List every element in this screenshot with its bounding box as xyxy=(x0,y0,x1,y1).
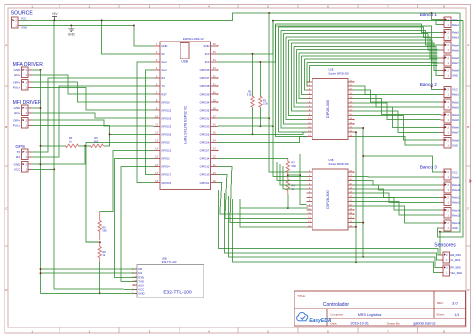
label MFA DRIVER xyxy=(13,62,44,68)
junction p12 rail xyxy=(362,256,364,258)
svg-text:Rele2: Rele2 xyxy=(452,31,459,35)
wire 3V3 p34 xyxy=(218,26,441,89)
junction banco1 vcc xyxy=(431,12,433,14)
wire socket1 p13 drop xyxy=(354,132,357,262)
wire R7 tap xyxy=(288,174,300,176)
junction M1 xyxy=(40,272,42,274)
connector bank Banco 2 xyxy=(420,82,460,148)
wire p27 xyxy=(218,117,270,119)
svg-text:GPIO25: GPIO25 xyxy=(200,133,210,137)
svg-text:GND: GND xyxy=(452,143,458,147)
svg-text:PUL+: PUL+ xyxy=(13,86,21,90)
svg-text:GND: GND xyxy=(14,68,22,72)
resistor R4 xyxy=(65,136,78,147)
wire row208 xyxy=(240,207,308,209)
wire MFI GND xyxy=(32,107,41,109)
wire GPS GND xyxy=(32,163,41,165)
wire R9 bottom xyxy=(287,195,289,209)
wire MFI DIR to pin11 xyxy=(32,120,153,126)
svg-text:2019-10-31: 2019-10-31 xyxy=(351,322,369,326)
svg-text:GPIO13: GPIO13 xyxy=(200,173,210,177)
svg-text:GPIO39: GPIO39 xyxy=(200,92,210,96)
svg-text:GND: GND xyxy=(68,32,76,36)
svg-text:VCC: VCC xyxy=(452,88,458,92)
junction R6 bottom xyxy=(99,241,101,243)
wire R4R5 tap down xyxy=(41,146,86,164)
junction p13 drop xyxy=(355,131,357,133)
wire banco1 vcc xyxy=(432,13,441,20)
svg-text:gabriel.barros: gabriel.barros xyxy=(413,322,435,326)
svg-text:SOURCE: SOURCE xyxy=(11,10,34,16)
wire socket2 p15 stub xyxy=(354,226,357,228)
wire VCC margin drop xyxy=(440,13,460,232)
junction A drop xyxy=(268,12,270,14)
connector MFA DIR/PUL xyxy=(13,80,32,90)
svg-text:Rele4: Rele4 xyxy=(452,113,459,117)
wire p19 to socket2 xyxy=(218,183,307,215)
wire p25 to socket1 p13 xyxy=(218,132,307,134)
svg-text:USB: USB xyxy=(181,60,188,64)
title block xyxy=(294,291,465,326)
wire banco3 vcc xyxy=(363,156,440,172)
wire MFA PUL to pin9 xyxy=(32,87,153,110)
wire p22 to R7 xyxy=(218,157,288,159)
svg-text:Sheet:: Sheet: xyxy=(436,313,445,317)
svg-text:GPIO18: GPIO18 xyxy=(161,133,171,137)
svg-text:TX: TX xyxy=(16,150,20,154)
junction banco2 vcc xyxy=(431,85,433,87)
unconnected pin markers xyxy=(133,45,354,286)
svg-text:U5B: U5B xyxy=(162,257,167,260)
svg-text:Socket DIP28-300: Socket DIP28-300 xyxy=(329,163,350,166)
svg-text:GPIO22: GPIO22 xyxy=(161,108,171,112)
resistor R5 xyxy=(90,136,104,147)
svg-text:DIR+: DIR+ xyxy=(13,80,20,84)
svg-text:Rele1: Rele1 xyxy=(452,93,459,97)
junction 5V drop xyxy=(101,19,103,21)
wire p20 to socket2 xyxy=(218,175,307,219)
svg-text:GPS: GPS xyxy=(15,144,25,149)
socket U3B DIP28-300 xyxy=(307,159,354,230)
connector bank Banco 1 xyxy=(420,12,460,78)
wire +5V vertical xyxy=(54,20,137,289)
resistor R2 xyxy=(259,62,269,108)
svg-text:Banco 3: Banco 3 xyxy=(420,165,438,170)
svg-text:Rele9: Rele9 xyxy=(452,175,459,179)
junction R4R5 xyxy=(84,145,86,147)
svg-text:Vext: Vext xyxy=(161,68,166,72)
wire R8 bottom xyxy=(99,262,101,293)
wire nest socket1 to banco1 xyxy=(276,24,441,136)
wire tap vertical xyxy=(300,154,307,204)
wire pin15 to E32 RXD xyxy=(115,158,154,277)
wire margin to sensores xyxy=(439,232,441,255)
usb connector xyxy=(180,43,189,64)
svg-text:A: A xyxy=(5,43,7,47)
svg-text:Rele16: Rele16 xyxy=(452,221,461,225)
svg-text:3V3: 3V3 xyxy=(205,60,210,64)
module U5 E32-TTL-100 xyxy=(132,264,203,297)
svg-text:VCC: VCC xyxy=(452,18,458,22)
svg-text:Rele3: Rele3 xyxy=(452,105,459,109)
wire rail3 xyxy=(228,196,440,268)
svg-text:GND: GND xyxy=(138,291,144,295)
svg-text:GND: GND xyxy=(21,25,27,29)
svg-text:1/1: 1/1 xyxy=(455,313,460,317)
svg-text:Rele13: Rele13 xyxy=(452,201,461,205)
svg-text:E32-TTL-100: E32-TTL-100 xyxy=(162,261,177,264)
svg-text:E32-TTL-100: E32-TTL-100 xyxy=(163,290,192,296)
svg-text:GPIO38: GPIO38 xyxy=(200,84,210,88)
svg-text:Rele15: Rele15 xyxy=(452,213,461,217)
svg-text:GPIO34: GPIO34 xyxy=(200,100,210,104)
wire banco1 rele1 xyxy=(436,21,441,25)
svg-text:MRS Logística: MRS Logística xyxy=(358,313,381,317)
wire rail4 xyxy=(233,199,441,273)
wire GND pin1 feed xyxy=(134,25,153,45)
svg-text:RST: RST xyxy=(161,92,167,96)
wire GND rail xyxy=(21,24,134,26)
svg-text:ESP32-LORA-V2: ESP32-LORA-V2 xyxy=(183,37,204,41)
svg-text:560: 560 xyxy=(94,139,99,143)
connector MFI GND/EN xyxy=(14,105,32,115)
svg-text:GPIO33: GPIO33 xyxy=(200,124,210,128)
resistor R9 xyxy=(286,175,295,194)
svg-text:EasyEDA: EasyEDA xyxy=(309,318,332,324)
wire VCC rail xyxy=(21,13,460,20)
svg-text:Rele4: Rele4 xyxy=(452,43,459,47)
wire E32 gnd xyxy=(41,292,138,294)
svg-text:560: 560 xyxy=(292,164,297,168)
junction R9 bottom xyxy=(287,207,289,209)
wire socket1 p12 drop xyxy=(354,128,364,257)
svg-text:Company:: Company: xyxy=(330,313,343,317)
svg-text:GPIO35: GPIO35 xyxy=(200,108,210,112)
svg-text:Rele3: Rele3 xyxy=(452,36,459,40)
wire socket2 p3 feed xyxy=(277,162,307,181)
wire aux corner xyxy=(86,241,100,243)
svg-text:GPIO15: GPIO15 xyxy=(161,149,171,153)
wire pin3 feed xyxy=(137,62,153,183)
ground symbol GND xyxy=(68,25,76,36)
junction GPS GND xyxy=(40,163,42,165)
svg-text:Rele6: Rele6 xyxy=(452,56,459,60)
wire M1 xyxy=(41,272,138,274)
svg-text:VEL_SEN: VEL_SEN xyxy=(450,271,462,275)
label LoRa vertical xyxy=(184,106,188,144)
wire p26 xyxy=(218,125,273,127)
wire pin16 to E32 TXD xyxy=(121,167,153,282)
svg-text:A: A xyxy=(467,43,469,47)
junction GPS VCC xyxy=(53,168,55,170)
svg-text:Banco 1: Banco 1 xyxy=(420,12,438,17)
svg-text:TX: TX xyxy=(161,84,165,88)
svg-text:Rele7: Rele7 xyxy=(452,131,459,135)
wire GPS TX to pin5 xyxy=(32,78,153,152)
junction p27 xyxy=(268,117,270,119)
svg-text:Vext: Vext xyxy=(161,60,166,64)
svg-text:Drawn By:: Drawn By: xyxy=(387,322,401,326)
svg-text:GPIO16: GPIO16 xyxy=(161,181,171,185)
svg-text:RP_SEN: RP_SEN xyxy=(450,266,461,270)
junction R5 pullup xyxy=(109,133,111,135)
svg-text:REV:: REV: xyxy=(437,301,444,305)
svg-text:Rele2: Rele2 xyxy=(452,100,459,104)
socket U2B DIP28-300 xyxy=(307,69,354,140)
wire 5V pin2 feed xyxy=(102,20,154,54)
svg-text:GPIO37: GPIO37 xyxy=(200,76,210,80)
junction B drop xyxy=(272,20,274,22)
wire R2 bottom xyxy=(259,107,261,126)
junction R8 gnd xyxy=(99,292,101,294)
svg-text:GPIO12: GPIO12 xyxy=(200,165,210,169)
junction banco3 vcc tap xyxy=(362,155,364,157)
svg-text:GPIO0: GPIO0 xyxy=(161,100,170,104)
wire socket2 p16 stub xyxy=(354,222,364,224)
svg-text:DIR+: DIR+ xyxy=(13,118,20,122)
wire GPS VCC xyxy=(32,168,54,170)
svg-text:Rele8: Rele8 xyxy=(452,69,459,73)
junction p12 drop xyxy=(362,127,364,129)
svg-text:Rele5: Rele5 xyxy=(452,48,459,52)
wire left GND vertical xyxy=(40,70,42,293)
svg-text:Banco 2: Banco 2 xyxy=(420,82,438,87)
label MFI DRIVER xyxy=(13,100,42,106)
svg-text:3.0: 3.0 xyxy=(452,301,458,306)
wire MFA DIR to pin8 xyxy=(32,82,153,102)
svg-text:GPIO19: GPIO19 xyxy=(161,116,171,120)
svg-text:VCC: VCC xyxy=(452,170,458,174)
junction p13 rail xyxy=(355,261,357,263)
svg-text:3.3k: 3.3k xyxy=(263,102,269,106)
wire socket1 p14 banco2 gnd xyxy=(354,136,441,145)
svg-text:DIP28-300: DIP28-300 xyxy=(326,100,330,118)
svg-text:VCC: VCC xyxy=(14,168,21,172)
svg-text:GPIO5: GPIO5 xyxy=(161,141,170,145)
svg-text:+5V: +5V xyxy=(52,12,59,16)
svg-text:U2B: U2B xyxy=(329,69,334,72)
wire R4 left xyxy=(41,145,66,147)
svg-text:Socket DIP28-300: Socket DIP28-300 xyxy=(329,73,350,76)
+5V power symbol xyxy=(52,12,59,20)
svg-text:560: 560 xyxy=(102,229,107,233)
wire socket2 p4 feed xyxy=(280,164,307,185)
junction s2p15 xyxy=(355,226,357,228)
wire p24 to socket1 p14 xyxy=(218,136,307,142)
svg-text:Rele14: Rele14 xyxy=(452,208,461,212)
logo EasyEDA xyxy=(297,313,332,325)
svg-text:3.3k: 3.3k xyxy=(247,93,253,97)
wire rail1 xyxy=(218,190,440,255)
connector P1 SOURCE xyxy=(12,16,28,29)
wire GPS RX to pin6 xyxy=(32,86,153,157)
svg-text:GPIO17: GPIO17 xyxy=(161,173,171,177)
connector P1 SOURCE title xyxy=(11,10,34,16)
svg-text:GPIO27: GPIO27 xyxy=(200,149,210,153)
connector bank Banco 3 xyxy=(420,165,461,231)
svg-text:TITLE:: TITLE: xyxy=(297,294,306,298)
svg-text:Rele8: Rele8 xyxy=(452,138,459,142)
resistor R6 xyxy=(98,212,107,241)
wire p21 to socket2 xyxy=(218,167,307,223)
svg-text:U3B: U3B xyxy=(329,159,334,162)
svg-text:GPIO21: GPIO21 xyxy=(200,181,210,185)
junction R2 top xyxy=(259,61,261,63)
wire pin4 feed xyxy=(146,70,154,175)
svg-text:GND: GND xyxy=(161,44,167,48)
wire banco1 r1 xyxy=(436,20,463,22)
svg-text:B: B xyxy=(467,125,469,129)
svg-text:B: B xyxy=(5,125,7,129)
label GPS xyxy=(15,144,25,149)
svg-text:Controlador: Controlador xyxy=(323,302,349,308)
svg-text:GPIO36: GPIO36 xyxy=(200,68,210,72)
wire MFI PUL to pin12 xyxy=(32,125,153,134)
svg-text:3V3: 3V3 xyxy=(205,52,210,56)
wire R1 bottom xyxy=(252,107,254,134)
svg-text:EN+: EN+ xyxy=(14,73,20,77)
svg-text:GND: GND xyxy=(203,44,209,48)
svg-text:5V: 5V xyxy=(161,52,164,56)
svg-text:Rele12: Rele12 xyxy=(452,196,461,200)
junction GND drop xyxy=(133,24,135,26)
wire socket2 to banco3 xyxy=(354,176,441,223)
wire socket2 p14 feed xyxy=(240,199,307,227)
wire R5 right up xyxy=(104,134,110,146)
svg-text:Rele5: Rele5 xyxy=(452,118,459,122)
junction R7 bottom xyxy=(287,174,289,176)
svg-text:Sensores: Sensores xyxy=(434,242,456,248)
connector Sensores xyxy=(434,242,462,275)
junction R4 left xyxy=(40,145,42,147)
junction sensores feed xyxy=(439,231,441,233)
wire B drop to socket2 p2 xyxy=(273,21,307,177)
wire rail2 xyxy=(225,193,441,260)
svg-text:GPIO4: GPIO4 xyxy=(161,165,170,169)
label ESP32-LORA-V2 xyxy=(183,37,204,41)
junction GND sym xyxy=(70,24,72,26)
junction MFI GND xyxy=(40,107,42,109)
connector GPS TX/RX xyxy=(16,149,32,159)
junction R7 tap xyxy=(299,174,301,176)
svg-text:GPIO32: GPIO32 xyxy=(200,116,210,120)
wire 3V3 p35 xyxy=(218,21,463,54)
resistor R1 xyxy=(247,54,255,108)
svg-text:LoRa SX1278 ESP32 V2: LoRa SX1278 ESP32 V2 xyxy=(184,106,188,144)
wire R4-R5 xyxy=(79,145,90,147)
svg-text:GND: GND xyxy=(452,74,458,78)
wire pin14 to R6 top xyxy=(100,150,154,211)
svg-text:EN+: EN+ xyxy=(14,111,20,115)
resistor R8 xyxy=(98,242,106,262)
svg-text:Rele11: Rele11 xyxy=(452,188,461,192)
junction p26 xyxy=(272,125,274,127)
svg-text:GND: GND xyxy=(452,226,458,230)
wire pin13 to AUX chain xyxy=(86,142,153,242)
wire MFA GND xyxy=(32,69,41,71)
wire GND margin drop xyxy=(438,21,463,237)
svg-text:DIP28-300: DIP28-300 xyxy=(326,190,330,208)
junction MFA GND xyxy=(40,69,42,71)
svg-text:Rele1: Rele1 xyxy=(452,23,459,27)
svg-text:Rele10: Rele10 xyxy=(452,183,461,187)
junction R1 top xyxy=(252,53,254,55)
junction R2 bottom xyxy=(259,125,261,127)
wire socket2 p5 feed xyxy=(283,166,307,189)
junction +5V xyxy=(53,19,55,21)
svg-text:GPIO2: GPIO2 xyxy=(161,157,170,161)
svg-text:RX: RX xyxy=(161,76,165,80)
junction s2p16 xyxy=(362,222,364,224)
label E32 big xyxy=(163,290,192,296)
svg-text:Date:: Date: xyxy=(330,322,337,326)
svg-text:EM_MFA: EM_MFA xyxy=(450,253,461,257)
svg-text:Rele6: Rele6 xyxy=(452,126,459,130)
wire A drop to socket2 p1 xyxy=(269,13,307,172)
svg-text:GPIO26: GPIO26 xyxy=(200,141,210,145)
connector MFI DIR/PUL xyxy=(13,118,32,128)
connector MFA GND/EN xyxy=(14,67,32,77)
svg-text:Rele7: Rele7 xyxy=(452,61,459,65)
svg-text:PUL+: PUL+ xyxy=(13,124,21,128)
module U1 ESP32-LORA-V2 xyxy=(153,42,217,190)
wire MFI EN to pin10 xyxy=(32,113,153,118)
svg-text:RX: RX xyxy=(16,155,20,159)
svg-text:GPIO14: GPIO14 xyxy=(200,157,210,161)
label U5B xyxy=(162,257,177,264)
junction R1 bottom xyxy=(252,133,254,135)
wire MFA EN to pin7 xyxy=(32,75,153,94)
svg-text:AL_MFA: AL_MFA xyxy=(450,258,460,262)
svg-text:GND: GND xyxy=(14,162,22,166)
wire M0 xyxy=(41,268,138,270)
svg-text:GPIO23: GPIO23 xyxy=(161,124,171,128)
junction M0 xyxy=(40,268,42,270)
connector GPS GND/VCC xyxy=(14,162,32,172)
resistor R7 xyxy=(286,158,296,175)
wire socket1 to banco2 xyxy=(354,86,441,140)
svg-text:GND: GND xyxy=(14,106,22,110)
